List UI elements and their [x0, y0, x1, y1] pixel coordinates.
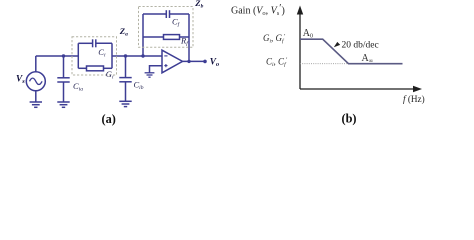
- wire non-inverting input: [150, 66, 163, 73]
- y axis: [297, 6, 303, 90]
- capacitor Cib: [119, 56, 131, 101]
- svg-text:(b): (b): [342, 111, 357, 125]
- svg-text:f (Hz): f (Hz): [403, 94, 425, 104]
- op-amp plus pin mark: [164, 64, 167, 67]
- capacitor Cia: [57, 56, 69, 102]
- wire main input net: [36, 55, 79, 57]
- wire Zb right riser and drop to output: [188, 14, 190, 61]
- svg-text:(a): (a): [102, 112, 116, 126]
- node C junction (feedback tap): [141, 54, 144, 57]
- wire Za right riser: [111, 43, 113, 68]
- resistor Rf: [143, 35, 189, 40]
- ground (Cia): [57, 102, 69, 107]
- dashed box Zb: [139, 7, 194, 48]
- node A junction (Cia tap): [62, 54, 65, 57]
- ground (op-amp +): [145, 73, 155, 77]
- wire Zb left riser: [142, 14, 144, 37]
- junction output-feedback: [187, 60, 190, 63]
- ground (Cib): [119, 101, 131, 106]
- node B junction (Cib tap): [124, 54, 127, 57]
- x axis: [300, 86, 422, 92]
- svg-text:Gain (Vo, Vs′): Gain (Vo, Vs′): [231, 3, 285, 17]
- ground (source): [30, 102, 42, 107]
- wire feedback left drop: [142, 37, 144, 56]
- svg-text:20 db/dec: 20 db/dec: [342, 41, 379, 51]
- op-amp U1: [162, 50, 183, 73]
- bode curve: [300, 39, 403, 64]
- dashed box Za: [72, 37, 117, 75]
- resistor Gi: [78, 66, 112, 71]
- annotation arrowhead: [334, 42, 340, 47]
- wire Za left riser: [77, 43, 79, 68]
- op-amp minus pin mark: [164, 55, 167, 57]
- dotted level line: [300, 63, 348, 65]
- voltage source Vs: [26, 56, 45, 102]
- terminal Vo: [203, 60, 207, 64]
- wire output net Vo: [183, 60, 206, 62]
- wire node A to node B: [112, 55, 162, 57]
- capacitor Cf: [143, 10, 189, 18]
- capacitor Ci: [78, 39, 112, 47]
